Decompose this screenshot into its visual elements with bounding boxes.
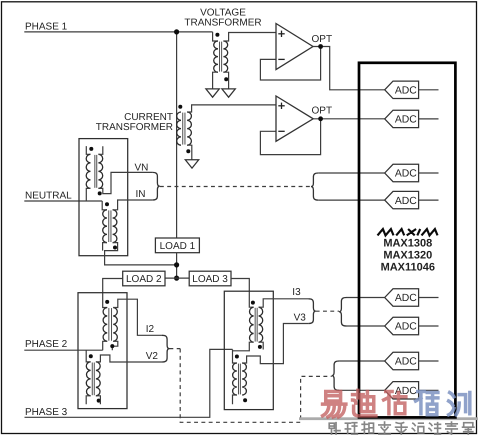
svg-text:ADC: ADC — [395, 293, 417, 304]
watermark underline bar — [299, 417, 478, 420]
wire to ADC6 — [346, 325, 384, 327]
wire T4 secondary to LOAD junction — [105, 243, 177, 265]
dashed wire VN/IN to ADCs — [160, 186, 311, 188]
wire LOAD1 to LOAD2/3 junction — [176, 253, 178, 278]
op-amp U1 — [276, 24, 313, 70]
wire T7 secondary bottom stub — [259, 342, 264, 349]
transformer T2 primary dot — [178, 105, 182, 109]
svg-text:I3: I3 — [292, 287, 301, 298]
part number MAX1320 — [383, 249, 432, 261]
wire T4 secondary to IN — [113, 200, 153, 210]
wire T4 primary bottom stub — [103, 243, 107, 251]
node PHASE 1 label — [25, 21, 68, 32]
transformer T4 primary dot — [105, 202, 109, 206]
transformer T3 primary dot — [89, 147, 93, 151]
brace ADC5/6 split — [339, 298, 347, 327]
transformer T3 secondary dot — [98, 191, 102, 195]
ADC7 — [385, 352, 439, 369]
ADC3 — [385, 164, 439, 181]
MAXIM logo — [378, 229, 438, 235]
ADC6 — [385, 317, 439, 334]
transformer T8 windings and core (V3) — [233, 363, 247, 395]
op-amp U2 — [276, 96, 313, 141]
svg-text:ADC: ADC — [395, 169, 417, 180]
svg-text:PHASE 3: PHASE 3 — [25, 407, 68, 418]
svg-text:ADC: ADC — [395, 115, 417, 126]
node V2 label — [146, 351, 159, 362]
transformer T3 primary top stub — [86, 146, 90, 154]
svg-text:ADC: ADC — [395, 357, 417, 368]
wire T8 primary bottom stub — [233, 395, 237, 404]
transformer T6 secondary dot — [97, 399, 101, 403]
svg-text:MAX1308: MAX1308 — [383, 237, 432, 249]
wire U2 feedback loop — [260, 119, 320, 155]
watermark logo and caption — [323, 390, 474, 434]
wire PHASE1 to LOAD1 vertical — [176, 32, 178, 238]
wire to ADC3 — [319, 172, 385, 174]
LOAD 3 box — [189, 271, 231, 286]
transformer T7 primary dot — [251, 301, 255, 305]
transformer T4 primary lead — [102, 201, 107, 210]
transformer T7 secondary dot — [258, 345, 262, 349]
ADC5 — [385, 289, 439, 306]
wire PHASE2 to T5 primary bottom — [103, 341, 108, 350]
svg-text:I2: I2 — [146, 324, 155, 335]
svg-text:ADC: ADC — [395, 86, 417, 97]
wire T6 secondary to V2 — [96, 355, 162, 362]
wire PHASE2 horizontal — [24, 349, 102, 351]
transformer T4 secondary dot — [113, 246, 117, 250]
ground (T1 secondary) — [222, 89, 235, 97]
ground (T2 secondary) — [185, 160, 198, 168]
wire T5 secondary bottom step — [112, 341, 118, 350]
transformer T3 windings and core (VN) — [86, 154, 103, 188]
dashed wire I3/V3 route — [316, 310, 339, 312]
node PHASE 2 label — [25, 339, 68, 350]
wire NEUTRAL horizontal — [24, 200, 102, 202]
node OPT (U2 output) — [312, 106, 333, 122]
node PHASE 3 label — [25, 407, 68, 418]
node IN label — [136, 189, 146, 200]
transformer T8 secondary dot — [243, 398, 247, 402]
wire U1 output to ADC1 — [313, 47, 385, 90]
wire to ADC7 — [339, 360, 384, 362]
wire T2 secondary to op-amp U2 — [187, 105, 276, 112]
wire to ADC8 — [339, 389, 384, 391]
wire LOAD2 to T5 primary — [103, 279, 123, 308]
wire T8 secondary to V3 — [242, 324, 308, 364]
svg-text:NEUTRAL: NEUTRAL — [25, 190, 72, 201]
svg-text:VN: VN — [135, 162, 149, 173]
svg-text:IN: IN — [136, 189, 146, 200]
dashed wire I2/V2 route — [169, 349, 331, 423]
node V3 label — [294, 313, 307, 324]
wire T6 secondary bottom stub — [96, 396, 101, 405]
node I2 label — [146, 324, 155, 335]
svg-text:PHASE 1: PHASE 1 — [25, 21, 68, 32]
svg-text:MAX1320: MAX1320 — [383, 249, 432, 261]
ground (T1 primary) — [206, 89, 219, 97]
transformer T5 secondary dot — [110, 344, 114, 348]
svg-text:TRANSFORMER: TRANSFORMER — [184, 18, 261, 29]
phase2 transformer block box — [78, 293, 127, 409]
wire LOAD3 to T7 primary — [231, 279, 254, 308]
wire PHASE3 horizontal — [25, 349, 233, 417]
junction dot (load split) — [174, 276, 179, 281]
svg-text:OPT: OPT — [312, 34, 333, 45]
part number MAX11046 — [381, 262, 435, 274]
wire T1 secondary to op-amp U1 — [223, 33, 276, 42]
wire T3 secondary to VN — [98, 172, 152, 193]
node OPT (U1 output) — [312, 34, 333, 49]
brace ADC3/4 split — [311, 173, 319, 200]
transformer T2 windings and core — [177, 112, 192, 145]
transformer T6 primary dot — [89, 354, 93, 358]
svg-text:LOAD 3: LOAD 3 — [192, 274, 228, 285]
ADC chip box MAX1308/MAX1320/MAX11046 — [359, 63, 455, 418]
svg-text:V2: V2 — [146, 351, 159, 362]
brace VN/IN combine — [152, 172, 160, 200]
phase3 transformer block box — [224, 291, 273, 409]
transformer T6 windings and core (V2) — [86, 362, 100, 396]
wire U1 feedback loop — [260, 47, 320, 81]
part number MAX1308 — [383, 237, 432, 249]
LOAD 2 box — [123, 271, 165, 286]
transformer T1 primary dot — [215, 33, 219, 37]
ADC2 — [385, 110, 439, 127]
junction dot PHASE1/vertical — [174, 29, 179, 34]
node VN label — [135, 162, 149, 173]
wire T5 secondary to I2 — [113, 299, 162, 335]
svg-text:MAX11046: MAX11046 — [381, 262, 435, 274]
wire T7 secondary to I3 — [259, 299, 309, 307]
brace I2/V2 combine — [162, 335, 170, 362]
transformer T4 windings and core (IN) — [103, 210, 117, 243]
node I3 label — [292, 287, 301, 298]
wire PHASE2 to T6 primary — [86, 350, 90, 362]
wire LOAD2 to LOAD3 — [165, 277, 189, 279]
junction dot (neutral return) — [174, 262, 179, 267]
svg-text:LOAD 1: LOAD 1 — [160, 241, 196, 252]
neutral transformer block box — [79, 139, 128, 256]
wire T7 primary bottom stub — [233, 342, 254, 351]
wire T1 primary to ground — [213, 72, 218, 89]
wire T6 primary bottom stub — [86, 396, 90, 405]
transformer T1 windings and core — [214, 41, 228, 72]
wire T1 secondary to ground — [223, 72, 228, 89]
svg-text:OPT: OPT — [312, 106, 333, 117]
svg-text:V3: V3 — [294, 313, 307, 324]
ADC4 — [385, 191, 439, 208]
svg-text:LOAD 2: LOAD 2 — [126, 274, 162, 285]
svg-text:TRANSFORMER: TRANSFORMER — [96, 122, 173, 133]
transformer T7 windings and core (I3) — [250, 307, 263, 342]
wire to ADC4 — [319, 199, 385, 201]
wire to ADC5 — [346, 297, 384, 299]
voltage transformer label — [184, 8, 261, 29]
brace ADC7/8 split — [332, 361, 340, 390]
transformer T5 windings and core (I2) — [103, 308, 117, 342]
node NEUTRAL label — [25, 190, 72, 201]
transformer T1 secondary dot — [224, 77, 228, 81]
wire U2 output to ADC2 — [313, 118, 384, 120]
ADC1 — [385, 81, 439, 98]
brace I3/V3 combine — [308, 299, 316, 324]
wire T3 primary to NEUTRAL — [86, 188, 90, 201]
svg-text:ADC: ADC — [395, 322, 417, 333]
LOAD 1 box — [155, 238, 199, 253]
wire PHASE1 horizontal — [24, 31, 212, 33]
wire T2 secondary to ground — [187, 145, 192, 160]
svg-text:PHASE 2: PHASE 2 — [25, 339, 68, 350]
current transformer label — [96, 112, 173, 133]
wire PHASE3 to T8 primary — [233, 349, 237, 363]
ADC8 — [385, 382, 439, 399]
transformer T2 secondary dot — [186, 149, 190, 153]
transformer T8 primary dot — [235, 355, 239, 359]
transformer T5 primary dot — [105, 300, 109, 304]
transformer T1 primary lead — [213, 32, 218, 41]
svg-text:ADC: ADC — [395, 196, 417, 207]
transformer T3 secondary top stub — [98, 146, 102, 154]
